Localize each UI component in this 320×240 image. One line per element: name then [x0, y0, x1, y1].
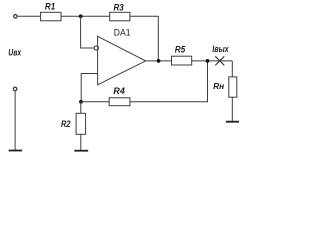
- wire: [192, 60, 233, 62]
- node A junction: [79, 14, 83, 18]
- svg-text:R1: R1: [45, 2, 55, 13]
- resistor R5: [172, 56, 192, 65]
- common bar (under Rн): [226, 121, 239, 123]
- wire: [80, 134, 82, 150]
- svg-text:Uвх: Uвх: [8, 48, 21, 59]
- svg-text:R2: R2: [61, 119, 71, 130]
- svg-text:Iвых: Iвых: [212, 44, 229, 54]
- wire: [14, 91, 16, 150]
- wire: [81, 101, 109, 103]
- node junction R2/R4: [79, 100, 83, 104]
- wire (R3 to output node, feedback): [130, 16, 158, 61]
- wire (non-inverting input): [81, 74, 97, 102]
- wire (node A to inverting input): [81, 16, 94, 48]
- svg-text:R5: R5: [175, 45, 186, 56]
- resistor R2: [76, 113, 86, 134]
- svg-text:R4: R4: [113, 86, 125, 97]
- output node junction: [157, 59, 161, 63]
- resistor Rн (load): [229, 77, 237, 97]
- resistor R4: [109, 98, 130, 106]
- node B junction: [206, 59, 210, 63]
- wire: [61, 15, 110, 17]
- common bar (bottom left): [9, 150, 23, 152]
- current marker X: [215, 56, 224, 65]
- common bar (under R2): [74, 150, 88, 152]
- wire: [18, 15, 41, 17]
- input terminal (top left): [14, 15, 18, 19]
- resistor R1: [41, 12, 61, 20]
- resistor R3: [110, 12, 130, 20]
- wire (op-amp output): [146, 60, 172, 62]
- op-amp DA1 triangle: [98, 36, 146, 85]
- inverting input bubble: [94, 46, 98, 50]
- wire: [231, 61, 233, 77]
- svg-text:Rн: Rн: [213, 82, 224, 91]
- input terminal (bottom left): [13, 87, 17, 91]
- wire: [80, 102, 82, 114]
- wire: [231, 97, 233, 121]
- svg-text:R3: R3: [114, 2, 125, 13]
- wire (R4 to node B): [130, 61, 208, 102]
- svg-text:DA1: DA1: [114, 28, 131, 39]
